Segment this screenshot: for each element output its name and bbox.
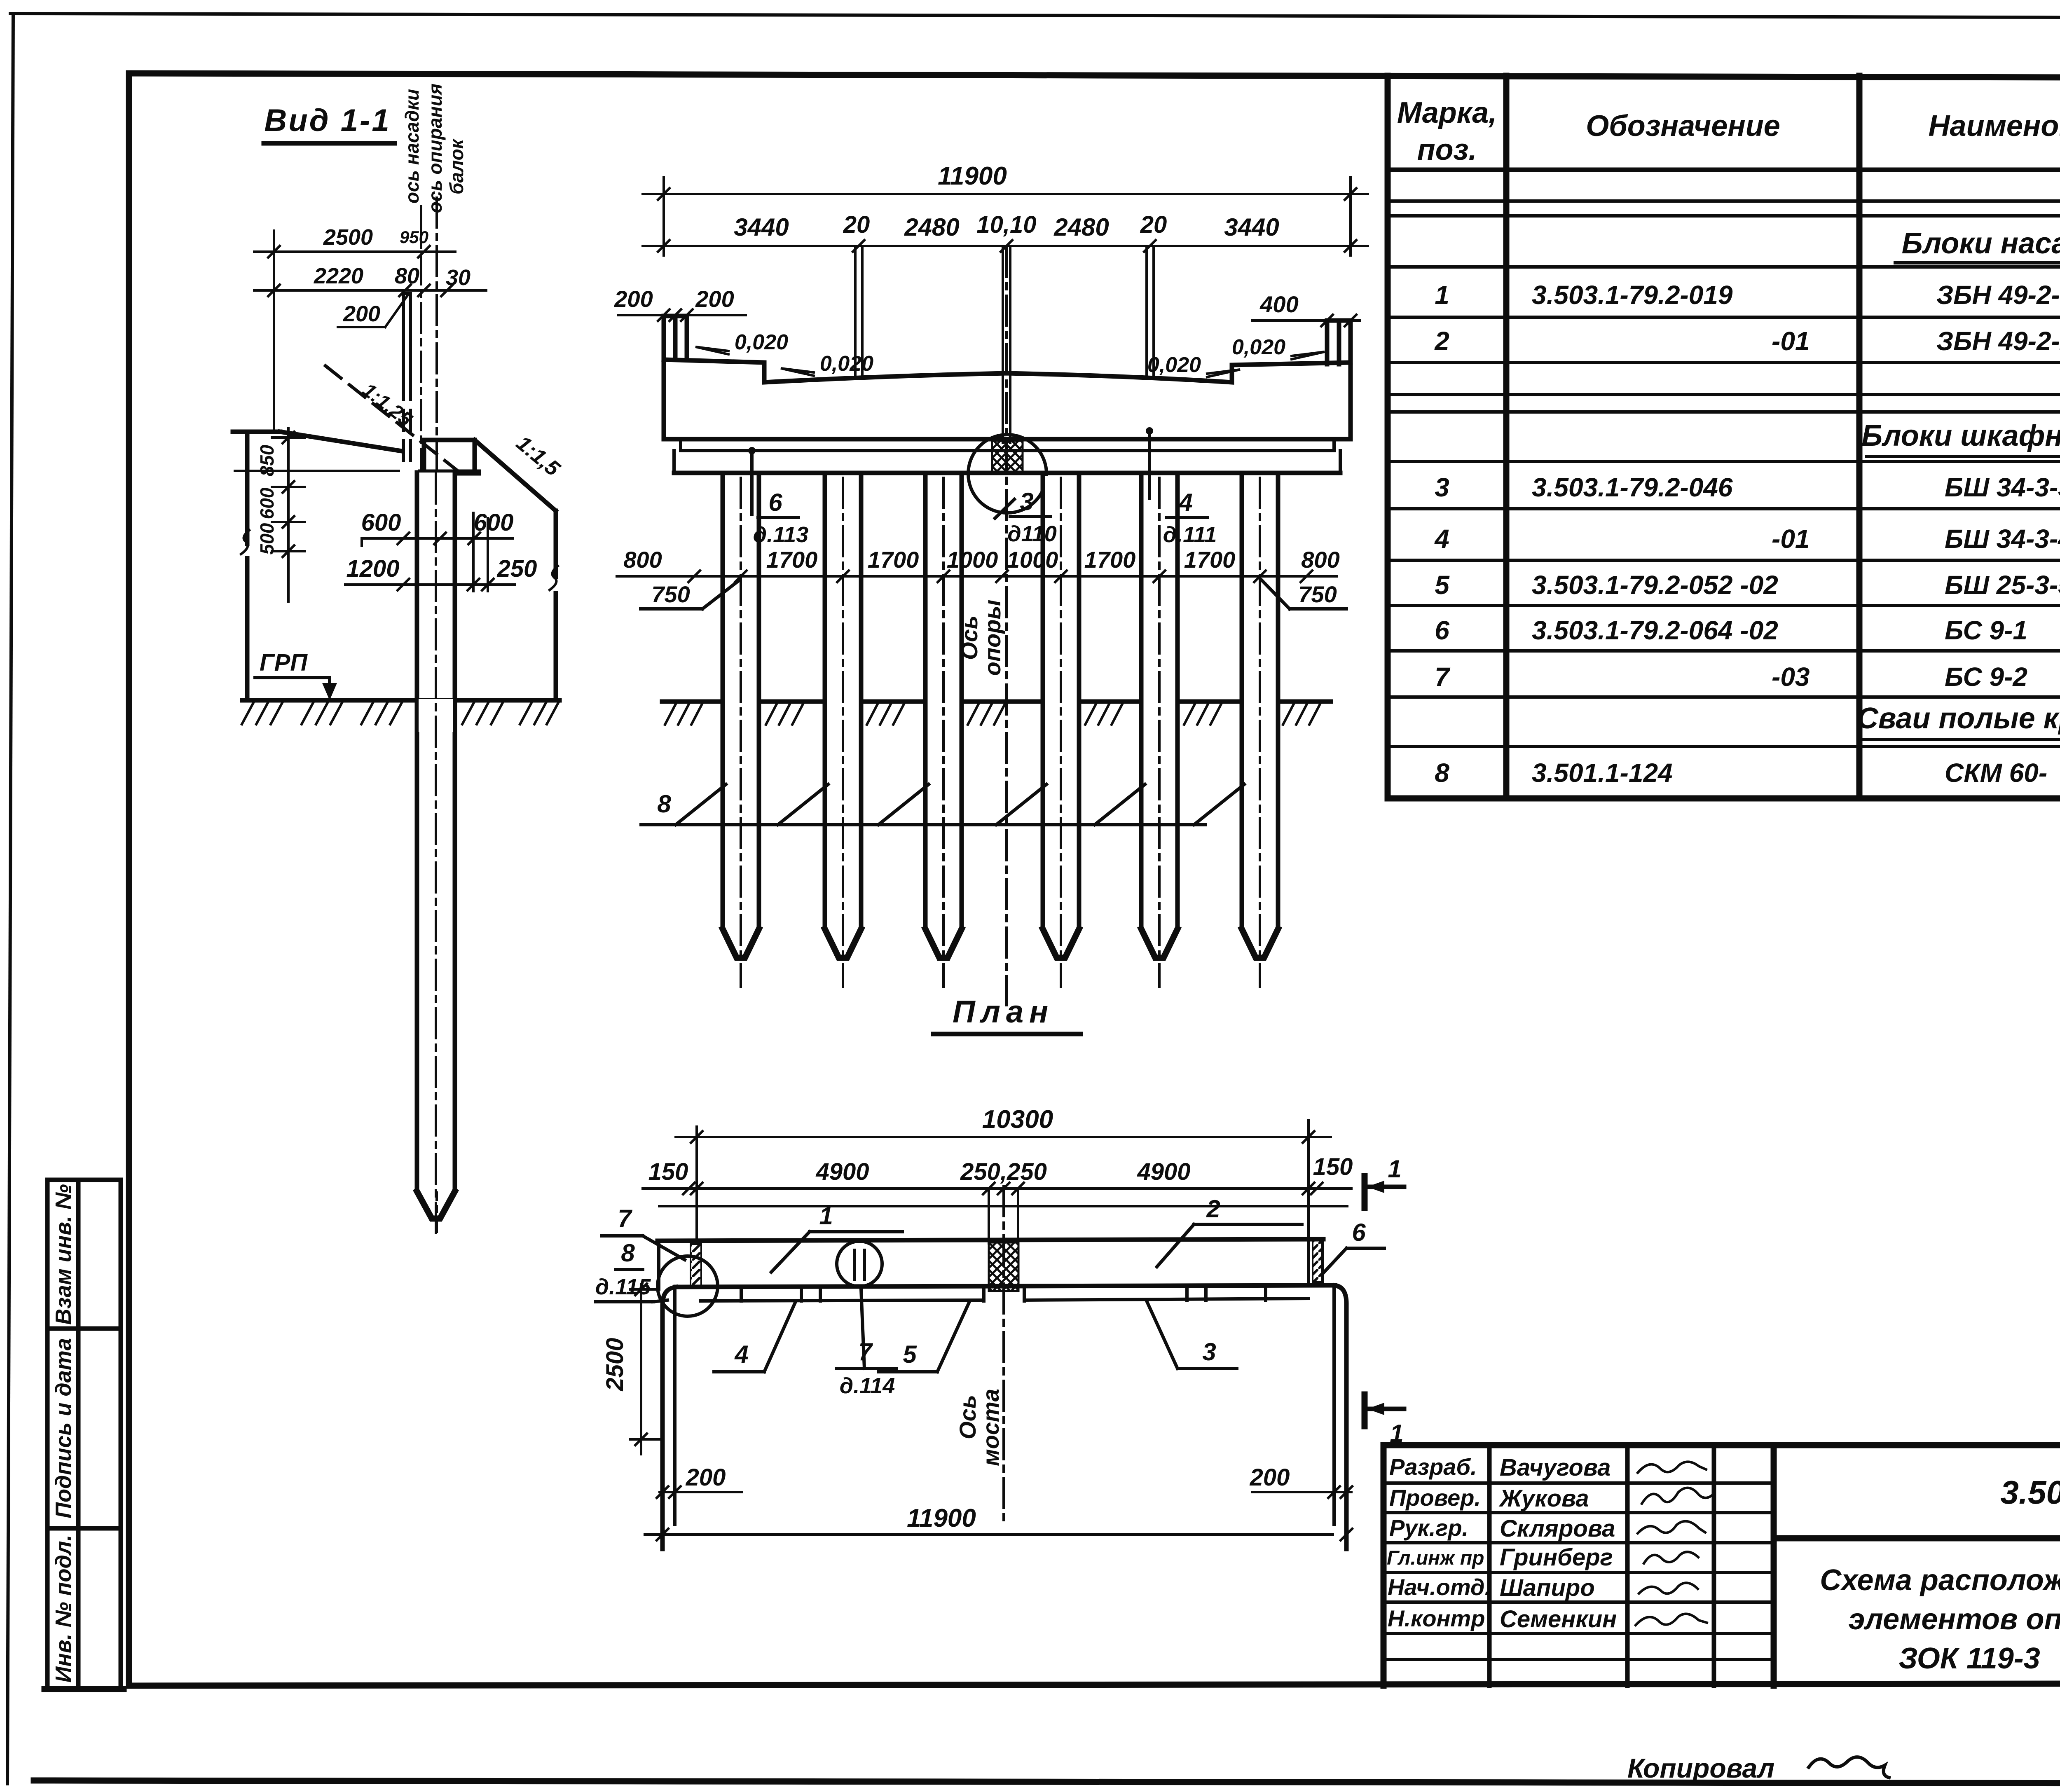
embankment slope dashed 1:1,25 — [325, 366, 468, 479]
table header bottom line — [1388, 168, 2060, 172]
pile over ground repaint — [419, 699, 453, 732]
svg-text:Семенкин: Семенкин — [1500, 1606, 1617, 1633]
svg-text:1: 1 — [1390, 1420, 1403, 1447]
table row line 8 — [1388, 460, 2060, 463]
inner wing verticals — [673, 1290, 677, 1524]
svg-text:0,020: 0,020 — [1147, 353, 1201, 377]
svg-text:3440: 3440 — [1224, 213, 1279, 241]
svg-text:Инв. № подл.: Инв. № подл. — [51, 1535, 76, 1683]
svg-text:3: 3 — [1020, 488, 1033, 515]
svg-text:поз.: поз. — [1417, 133, 1477, 166]
svg-text:Марка,: Марка, — [1397, 96, 1497, 129]
table row 3 item БШ 34-3-3 — [1435, 473, 2060, 502]
svg-text:200: 200 — [1250, 1464, 1290, 1491]
svg-text:1700: 1700 — [1084, 547, 1136, 573]
center joint hatch plan — [989, 1242, 1018, 1291]
svg-text:1: 1 — [1435, 280, 1449, 310]
svg-text:4: 4 — [734, 1340, 748, 1368]
svg-text:Вид 1-1: Вид 1-1 — [264, 103, 391, 138]
copier signature — [1809, 1757, 1889, 1778]
table row 4 item БШ 34-3-4 — [1434, 524, 2060, 554]
svg-text:балок: балок — [446, 138, 467, 194]
table row line 3 — [1388, 265, 2060, 269]
д114 joint detail circle — [837, 1241, 882, 1287]
svg-text:БШ 34-3-4: БШ 34-3-4 — [1945, 524, 2060, 554]
svg-text:БШ 34-3-3: БШ 34-3-3 — [1945, 473, 2060, 502]
svg-text:1200: 1200 — [346, 555, 399, 582]
svg-text:Гл.инж пр: Гл.инж пр — [1387, 1547, 1484, 1569]
svg-text:ось опирания: ось опирания — [424, 84, 446, 213]
svg-text:Н.контр: Н.контр — [1388, 1605, 1485, 1631]
table row line 11 — [1388, 604, 2060, 607]
svg-text:Жукова: Жукова — [1498, 1485, 1589, 1512]
svg-text:6: 6 — [768, 489, 782, 516]
svg-text:950: 950 — [400, 227, 428, 247]
body left edge — [245, 432, 250, 700]
svg-text:400: 400 — [1259, 291, 1298, 317]
svg-text:200: 200 — [343, 302, 380, 326]
svg-text:8: 8 — [1435, 758, 1449, 788]
svg-text:1700: 1700 — [766, 547, 818, 573]
svg-text:600: 600 — [474, 509, 514, 536]
svg-text:3440: 3440 — [734, 213, 789, 241]
svg-text:д.113: д.113 — [753, 522, 808, 547]
svg-text:-01: -01 — [1772, 524, 1810, 554]
cabinet wall edges — [402, 294, 405, 380]
svg-text:Обозначение: Обозначение — [1586, 110, 1780, 143]
sheet left edge — [7, 14, 13, 1784]
table row line 10 — [1388, 559, 2060, 562]
cap strip bottom edge with wing corners — [676, 1285, 1335, 1287]
long thin line through plan — [659, 1205, 1347, 1207]
svg-text:20: 20 — [843, 211, 870, 238]
title block signature names — [1498, 1454, 1617, 1633]
svg-text:СКМ 60-: СКМ 60- — [1945, 758, 2047, 788]
pile 3 — [925, 473, 962, 987]
pile 4 — [1043, 473, 1079, 987]
leader 3 д110 — [995, 499, 1014, 518]
berm slope down to wall — [280, 432, 402, 451]
svg-text:БС 9-1: БС 9-1 — [1945, 615, 2027, 645]
svg-text:0,020: 0,020 — [735, 330, 788, 354]
svg-text:3.503.1-79.2-046: 3.503.1-79.2-046 — [1532, 473, 1733, 502]
dowel bar middle — [1002, 247, 1004, 443]
section marker 1 top — [1362, 1176, 1368, 1208]
ground line elevation — [662, 699, 1331, 704]
dimension 2500 — [254, 250, 455, 253]
table column line Обозначение/Наименование — [1856, 76, 1863, 798]
svg-text:5: 5 — [903, 1340, 917, 1368]
cap beam outline — [664, 316, 687, 360]
right anchor dowel (hatched) — [1313, 1240, 1323, 1282]
svg-text:Схема расположения: Схема расположения — [1820, 1564, 2060, 1597]
svg-text:3.503.1-79.2-064 -02: 3.503.1-79.2-064 -02 — [1532, 615, 1778, 645]
table row line 1 — [1388, 199, 2060, 203]
svg-text:7: 7 — [1435, 662, 1451, 692]
svg-text:30: 30 — [446, 265, 471, 290]
sheet top edge — [10, 14, 2060, 18]
table row line 12 — [1388, 649, 2060, 653]
table row 7 item БС 9-2 — [1435, 662, 2060, 692]
cap strip end verticals — [657, 1241, 660, 1287]
pile 6 — [1242, 473, 1278, 987]
table row 6 item БС 9-1 — [1435, 615, 2060, 645]
svg-text:1700: 1700 — [1184, 547, 1236, 573]
table row line 5 — [1388, 361, 2060, 364]
axis of bearing / pile axis (dash-dot) — [435, 198, 438, 1232]
svg-text:250: 250 — [497, 555, 537, 582]
svg-text:Ось: Ось — [956, 615, 982, 660]
joint detail circle — [968, 435, 1046, 513]
svg-text:1700: 1700 — [868, 547, 919, 573]
svg-text:ЗОК 119-3: ЗОК 119-3 — [1898, 1642, 2040, 1675]
svg-text:150: 150 — [1313, 1153, 1353, 1180]
svg-text:2: 2 — [1434, 326, 1449, 356]
section marker 1 bottom — [1362, 1394, 1368, 1426]
drawing frame top — [129, 73, 2060, 78]
pile shaft of view 1-1 — [417, 473, 455, 1191]
handwritten signatures — [1636, 1462, 1712, 1625]
dimension 200 200 left — [618, 314, 746, 316]
svg-text:План: План — [953, 994, 1054, 1029]
svg-text:ЗБН 49-2-1: ЗБН 49-2-1 — [1936, 280, 2060, 310]
cap strip top edge — [658, 1239, 1323, 1241]
svg-text:Провер.: Провер. — [1389, 1485, 1481, 1511]
dimension 600 600 — [362, 537, 513, 540]
level line — [235, 470, 399, 472]
axis of cap (dash-dot) — [420, 206, 422, 599]
svg-text:11900: 11900 — [938, 162, 1007, 190]
svg-text:3.503.1-79.2-052 -02: 3.503.1-79.2-052 -02 — [1532, 570, 1778, 600]
dimension 2220 80 30 — [254, 289, 486, 292]
drawing frame bottom — [129, 1683, 2060, 1686]
svg-text:600: 600 — [361, 509, 401, 536]
title block signature column lines — [1487, 1445, 1492, 1686]
svg-text:Склярова: Склярова — [1500, 1515, 1615, 1542]
svg-text:2480: 2480 — [904, 213, 959, 241]
table row 8 item СКМ 60 — [1435, 758, 2060, 788]
table row line 4 — [1388, 316, 2060, 319]
pier axis dash-dot — [1005, 247, 1008, 1005]
svg-text:3.503.1-79.1-034: 3.503.1-79.1-034 — [2000, 1474, 2060, 1511]
svg-text:5: 5 — [1435, 570, 1450, 600]
svg-text:моста: моста — [978, 1389, 1004, 1466]
svg-text:6: 6 — [1435, 615, 1449, 645]
svg-text:6: 6 — [1352, 1219, 1366, 1246]
svg-text:2500: 2500 — [602, 1338, 628, 1391]
left margin stamp strip — [44, 1180, 124, 1689]
svg-text:800: 800 — [1301, 547, 1339, 573]
drawing frame left — [126, 73, 132, 1686]
dowel bar right — [1145, 247, 1148, 379]
svg-text:3.503.1-79.2-019: 3.503.1-79.2-019 — [1532, 280, 1733, 310]
sheet bottom edge — [34, 1780, 2060, 1784]
svg-text:ось насадки: ось насадки — [401, 89, 423, 204]
dimension segments 3440 20 2480 10,10 2480 20 3440 — [643, 245, 1368, 247]
svg-text:д.111: д.111 — [1163, 522, 1217, 547]
berm top line — [233, 430, 280, 434]
svg-text:750: 750 — [1298, 581, 1337, 607]
svg-text:БШ 25-3-5: БШ 25-3-5 — [1945, 570, 2060, 600]
svg-text:Блоки шкафной стенки: Блоки шкафной стенки — [1861, 419, 2060, 452]
table row line 9 — [1388, 507, 2060, 510]
ground hatching elevation — [665, 704, 1320, 725]
svg-text:2480: 2480 — [1053, 213, 1109, 241]
svg-text:Сваи полые круглые: Сваи полые круглые — [1857, 702, 2060, 735]
leader 6 д.113 — [750, 449, 754, 514]
table bottom line — [1388, 795, 2060, 802]
svg-text:-01: -01 — [1772, 326, 1810, 356]
svg-text:7: 7 — [618, 1205, 632, 1232]
dimension 11900 (top) — [643, 193, 1368, 195]
svg-text:10300: 10300 — [982, 1105, 1053, 1134]
center joint hatch — [992, 441, 1023, 474]
pile 1 — [723, 473, 759, 987]
svg-text:7: 7 — [858, 1338, 873, 1366]
svg-text:ЗБН 49-2-2: ЗБН 49-2-2 — [1936, 326, 2060, 356]
svg-text:Блоки насадки: Блоки насадки — [1902, 227, 2060, 260]
ground hatching — [242, 703, 558, 724]
svg-text:500: 500 — [256, 523, 278, 554]
dimension 400 right — [1252, 319, 1360, 322]
svg-text:20: 20 — [1140, 211, 1167, 238]
extension verticals — [695, 1127, 698, 1243]
dowel bar left — [854, 247, 857, 379]
svg-text:0,020: 0,020 — [1232, 335, 1285, 359]
leader 4 д.111 — [1148, 429, 1151, 498]
table row line 2 — [1388, 214, 2060, 218]
cap beam bottom — [664, 437, 1351, 442]
drawing title — [1820, 1564, 2060, 1675]
body right edge — [554, 511, 558, 700]
svg-text:Вачугова: Вачугова — [1500, 1454, 1611, 1481]
svg-text:200: 200 — [695, 286, 734, 312]
table row 2 item ЗБН 49-2-2 — [1434, 326, 2060, 356]
ledge lines under beam — [681, 449, 1334, 452]
svg-text:Наименование: Наименование — [1929, 110, 2060, 143]
bearing block — [422, 440, 426, 473]
svg-text:4900: 4900 — [815, 1158, 869, 1185]
svg-text:3.501.1-124: 3.501.1-124 — [1532, 758, 1673, 788]
dimension 1200 250 — [345, 583, 515, 586]
left anchor dowel (hatched) — [691, 1244, 701, 1286]
piles of elevation — [617, 247, 1346, 1005]
title block outline — [1383, 1445, 2060, 1686]
svg-text:200: 200 — [614, 286, 653, 312]
svg-text:1000: 1000 — [1007, 547, 1058, 573]
svg-text:750: 750 — [651, 581, 690, 607]
table row line 13 — [1388, 695, 2060, 699]
svg-text:1: 1 — [819, 1202, 833, 1230]
table row 1 item ЗБН 49-2-1 — [1435, 280, 2060, 310]
svg-text:Разраб.: Разраб. — [1389, 1454, 1477, 1480]
svg-text:ГРП: ГРП — [260, 649, 308, 676]
svg-text:4: 4 — [1178, 489, 1192, 516]
items table grid — [1388, 76, 2060, 798]
svg-text:10,10: 10,10 — [976, 211, 1036, 238]
table column line Марка/Обозначение — [1503, 76, 1510, 798]
dimension 150 4900 250 250 4900 150 — [643, 1187, 1351, 1190]
svg-text:4: 4 — [1434, 524, 1449, 554]
pile 5 — [1141, 473, 1177, 987]
svg-text:Ось: Ось — [955, 1395, 981, 1439]
svg-text:д.114: д.114 — [840, 1373, 895, 1398]
svg-text:4900: 4900 — [1137, 1158, 1190, 1185]
left level dimension line — [287, 428, 290, 601]
svg-text:Подпись и дата: Подпись и дата — [51, 1338, 76, 1518]
vertical dimension 2500 plan — [640, 1284, 642, 1454]
cone slope 1:1,5 — [475, 440, 556, 511]
svg-text:3: 3 — [1202, 1338, 1216, 1366]
svg-text:БС 9-2: БС 9-2 — [1945, 662, 2027, 692]
svg-text:850: 850 — [256, 444, 278, 476]
svg-text:1: 1 — [1388, 1155, 1401, 1183]
svg-text:-03: -03 — [1772, 662, 1810, 692]
title block signature labels — [1387, 1454, 1491, 1631]
svg-text:Шапиро: Шапиро — [1500, 1574, 1595, 1601]
svg-text:Нач.отд.: Нач.отд. — [1388, 1574, 1491, 1600]
svg-text:2220: 2220 — [314, 264, 363, 288]
svg-text:3: 3 — [1435, 473, 1449, 502]
bottom dimension line 800 1700 1700 1000 1000 1700 1700 800 — [617, 575, 1337, 578]
svg-text:Рук.гр.: Рук.гр. — [1389, 1515, 1468, 1541]
svg-text:0,020: 0,020 — [820, 352, 873, 376]
pile 2 — [825, 473, 861, 987]
svg-text:80: 80 — [395, 264, 419, 288]
svg-text:600: 600 — [256, 487, 278, 519]
svg-text:элементов опор: элементов опор — [1849, 1603, 2060, 1636]
bridge axis dash-dot — [1002, 1186, 1005, 1526]
dimension 10300 — [676, 1136, 1331, 1138]
svg-text:Взам инв. №: Взам инв. № — [51, 1184, 76, 1325]
svg-text:150: 150 — [648, 1158, 688, 1185]
svg-text:8: 8 — [621, 1239, 635, 1267]
table header texts — [1397, 93, 2060, 166]
svg-text:опоры: опоры — [979, 600, 1005, 676]
svg-text:800: 800 — [623, 547, 662, 573]
svg-text:8: 8 — [657, 790, 671, 818]
svg-text:2: 2 — [1206, 1195, 1220, 1223]
title block doc number separator — [1774, 1535, 2060, 1542]
table row 5 item БШ 25-3-5 — [1435, 570, 2060, 600]
ground line of view 1-1 — [242, 698, 559, 703]
svg-text:Копировал: Копировал — [1627, 1753, 1774, 1783]
table row line 7 — [1388, 410, 2060, 414]
title block signature row lines — [1383, 1481, 1774, 1485]
wall band line — [700, 1298, 1309, 1301]
svg-text:2500: 2500 — [323, 225, 373, 250]
left anchor detail circle — [658, 1256, 718, 1316]
svg-text:1000: 1000 — [947, 547, 998, 573]
table row line 6 — [1388, 393, 2060, 396]
svg-text:Гринберг: Гринберг — [1500, 1544, 1613, 1571]
svg-text:250,250: 250,250 — [960, 1158, 1047, 1185]
table left edge — [1385, 76, 1391, 798]
svg-text:д110: д110 — [1007, 522, 1056, 546]
svg-text:200: 200 — [686, 1464, 726, 1491]
svg-text:11900: 11900 — [907, 1504, 976, 1532]
table row line 14 — [1388, 745, 2060, 748]
